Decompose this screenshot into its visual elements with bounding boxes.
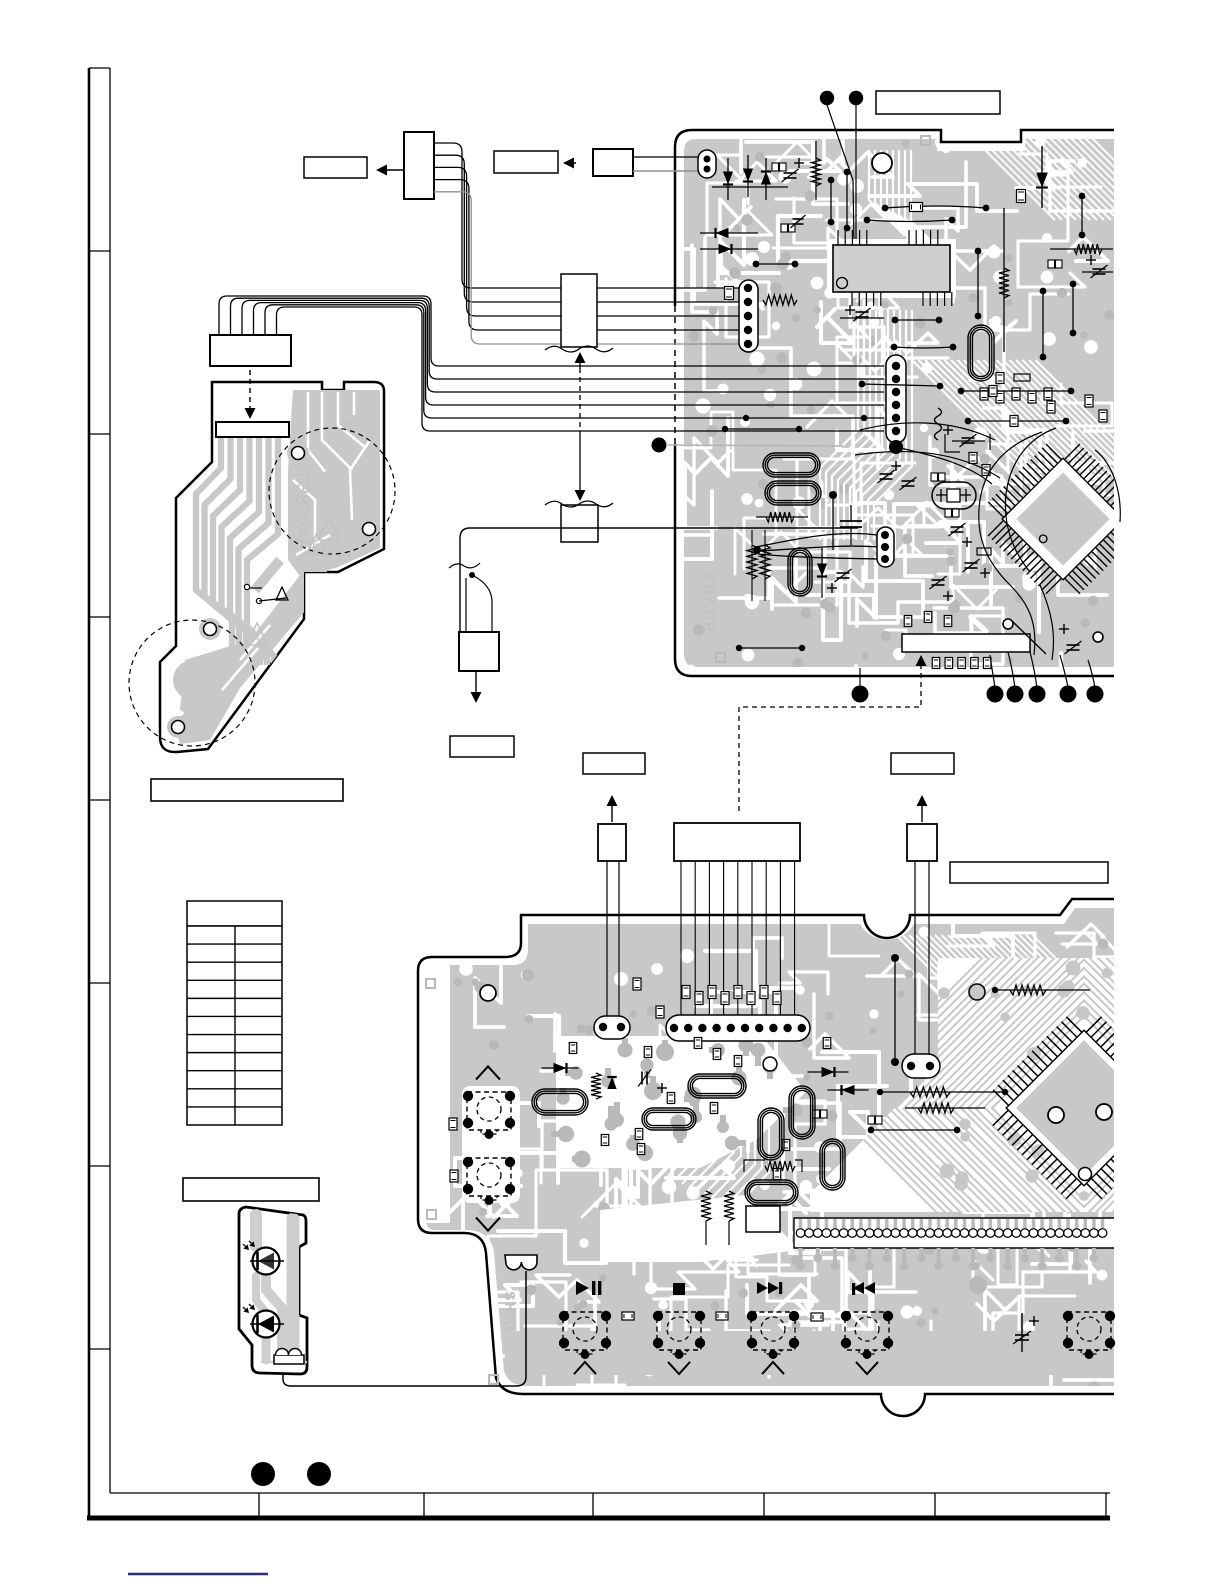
svg-text:SHARP: SHARP <box>700 572 717 634</box>
svg-text:A: A <box>252 631 260 645</box>
svg-text:B: B <box>312 541 320 555</box>
svg-text:8: 8 <box>338 420 355 428</box>
svg-text:F3895AF: F3895AF <box>291 472 312 550</box>
